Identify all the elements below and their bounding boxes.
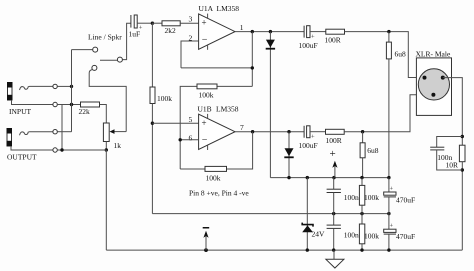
- junction 6u8 second top node: [361, 130, 364, 133]
- svg-text:INPUT: INPUT: [9, 107, 32, 116]
- wire common up to 1uF: [122, 23, 130, 59]
- junction input tip node: [70, 85, 73, 88]
- junction diode D1 top: [269, 30, 272, 33]
- junction U1A output node: [251, 30, 254, 33]
- wire node to 2k2: [152, 22, 162, 24]
- junction rail D2: [287, 176, 290, 179]
- junction rail zener: [306, 176, 309, 179]
- junction bus 470uF: [387, 248, 390, 251]
- wire vertical input bus: [71, 50, 73, 132]
- input ring terminal circle: [53, 102, 57, 106]
- wire input ring to 22k: [57, 104, 80, 106]
- XLR pin 1 contact: [431, 93, 435, 97]
- wire 22k to pot top: [100, 105, 107, 124]
- resistor R8 6u8: [360, 132, 365, 178]
- junction bias 100k: [360, 212, 363, 215]
- potentiometer 1k: [103, 123, 109, 142]
- input jack J1: [7, 82, 13, 100]
- XLR connector P1 body: [416, 58, 451, 116]
- diode D1: [266, 32, 275, 178]
- svg-text:Pin 8 +ve, Pin 4 -ve: Pin 8 +ve, Pin 4 -ve: [189, 189, 249, 198]
- capacitor C1 1uF: [131, 15, 137, 28]
- svg-text:+: +: [311, 34, 315, 41]
- junction minus marker: [204, 248, 208, 252]
- svg-text:22k: 22k: [79, 107, 91, 116]
- wire input tip to node: [57, 85, 71, 87]
- svg-text:+: +: [390, 223, 394, 230]
- svg-text:100uF: 100uF: [299, 141, 318, 150]
- capacitor C7 470uF: [384, 214, 396, 251]
- resistor R4 100k feedback: [205, 166, 227, 171]
- resistor R2 100k bias: [150, 23, 155, 213]
- wire U1B feedback loop: [180, 132, 252, 169]
- wire C2 to R5: [310, 31, 326, 33]
- wire input sleeve lead: [12, 100, 53, 105]
- wire U1A output: [235, 31, 304, 33]
- svg-text:1uF: 1uF: [129, 30, 141, 39]
- svg-text:Line / Spkr: Line / Spkr: [88, 33, 122, 42]
- junction U1B plus node: [151, 122, 154, 125]
- wire C3 to R6: [310, 131, 326, 133]
- svg-text:U1A: U1A: [199, 4, 214, 13]
- wire pot bottom: [105, 142, 107, 151]
- junction zobel bottom: [461, 168, 464, 171]
- svg-text:100k: 100k: [199, 91, 214, 100]
- svg-text:LM358: LM358: [217, 4, 240, 13]
- wire output ring to ground drop: [57, 149, 106, 151]
- junction rail 100k: [360, 176, 363, 179]
- svg-text:+: +: [390, 185, 394, 192]
- svg-text:3: 3: [189, 15, 193, 24]
- output jack J2: [7, 128, 13, 146]
- junction feedback node: [251, 66, 254, 69]
- svg-text:7: 7: [240, 123, 244, 132]
- svg-text:+: +: [311, 134, 315, 141]
- junction pin6 node: [179, 138, 182, 141]
- wire +V rail: [270, 177, 389, 179]
- XLR pin 3 contact: [441, 76, 445, 80]
- capacitor C3 100uF: [304, 126, 310, 138]
- resistor R1 2k2: [162, 21, 180, 26]
- svg-text:XLR- Male: XLR- Male: [416, 50, 451, 59]
- zener diode ZD1 24V: [302, 178, 313, 251]
- output tip terminal circle: [53, 130, 57, 134]
- svg-text:100R: 100R: [326, 136, 342, 145]
- junction link node: [60, 148, 63, 151]
- label minus supply marker: [203, 227, 210, 229]
- resistor R3 100k: [197, 84, 217, 89]
- svg-text:OUTPUT: OUTPUT: [7, 153, 37, 162]
- svg-text:1k: 1k: [114, 141, 122, 150]
- junction bus 100k: [360, 248, 363, 251]
- capacitor C8 100n zobel: [430, 137, 462, 171]
- svg-text:24V: 24V: [312, 230, 326, 239]
- wire XLR pin3 to shield leg: [443, 78, 463, 146]
- resistor R6 100R: [326, 129, 345, 134]
- op-amp U1B: [199, 114, 235, 150]
- junction diode D2 top: [287, 130, 290, 133]
- switch blade: [100, 59, 117, 61]
- svg-text:1: 1: [240, 23, 244, 32]
- input tip terminal circle: [53, 84, 57, 88]
- svg-text:100R: 100R: [325, 36, 341, 45]
- svg-text:100k: 100k: [157, 94, 172, 103]
- input jack tip contact arm: [20, 86, 53, 90]
- wire output sleeve lead: [11, 146, 53, 150]
- svg-text:100k: 100k: [364, 231, 379, 240]
- junction U1B output node: [251, 130, 254, 133]
- svg-text:+: +: [202, 18, 207, 28]
- svg-text:100n: 100n: [344, 193, 359, 202]
- svg-text:6u8: 6u8: [395, 50, 407, 59]
- wire bias rail: [152, 213, 389, 215]
- wire R6 to XLR pin3: [344, 95, 433, 132]
- resistor R9 100k: [359, 178, 364, 214]
- svg-text:470uF: 470uF: [396, 196, 415, 205]
- svg-text:+: +: [202, 118, 207, 128]
- wire ground bus: [106, 249, 462, 251]
- wire output tip to input bus: [57, 131, 71, 133]
- arrow plus supply: [332, 161, 337, 178]
- svg-text:100uF: 100uF: [299, 41, 318, 50]
- wire U1A pin2: [181, 41, 199, 68]
- XLR pin 2 contact: [423, 76, 427, 80]
- junction 6u8 top node: [387, 30, 390, 33]
- ground: [326, 250, 344, 268]
- junction ring node: [70, 103, 73, 106]
- switch SW1 throw B terminal: [92, 65, 97, 70]
- switch SW1 throw A terminal: [93, 47, 98, 52]
- wire U1B pin6: [180, 139, 198, 141]
- pot wiper arrow: [111, 131, 126, 133]
- diode D2: [284, 132, 293, 178]
- junction bias 470uF: [387, 212, 390, 215]
- svg-text:100k: 100k: [364, 193, 379, 202]
- resistor R5 100R: [326, 29, 345, 34]
- output ring terminal circle: [53, 148, 57, 152]
- svg-text:LM358: LM358: [216, 105, 239, 114]
- wire 100k row left: [180, 86, 252, 169]
- svg-text:−: −: [202, 135, 208, 146]
- svg-text:6u8: 6u8: [367, 146, 379, 155]
- capacitor C5 100n: [327, 214, 341, 251]
- capacitor C4 100n: [327, 178, 341, 214]
- junction input bias node: [151, 22, 154, 25]
- junction bus zener: [306, 248, 309, 251]
- wire R5 to XLR pin2: [345, 32, 425, 78]
- resistor R11 10R: [459, 145, 465, 162]
- wire throw B to pot wiper: [89, 70, 126, 132]
- svg-text:−: −: [202, 35, 208, 46]
- arrow minus supply: [203, 231, 208, 250]
- wire ground drop left: [105, 150, 107, 250]
- wire U1A feedback row: [181, 67, 252, 69]
- svg-text:100n: 100n: [344, 230, 359, 239]
- resistor 22k: [81, 102, 100, 107]
- output jack tip contact arm: [20, 132, 53, 136]
- op-amp U1A: [199, 14, 235, 50]
- resistor R10 100k: [359, 214, 364, 251]
- svg-text:5: 5: [189, 115, 193, 124]
- svg-text:470uF: 470uF: [396, 232, 415, 241]
- junction rail 100n: [332, 176, 335, 179]
- junction rail 470uF: [387, 176, 390, 179]
- capacitor C6 470uF: [384, 178, 396, 214]
- resistor R7 6u8: [386, 32, 391, 178]
- wire ring to output-sleeve link: [61, 105, 63, 151]
- wire U1B pin5: [152, 122, 198, 124]
- svg-text:100n: 100n: [437, 153, 452, 162]
- wire C1 to node: [137, 22, 152, 24]
- svg-text:+: +: [330, 148, 336, 160]
- svg-text:100k: 100k: [206, 174, 221, 183]
- junction zobel top: [461, 135, 464, 138]
- wire U1B output: [235, 131, 304, 133]
- junction bus 100n: [332, 248, 335, 251]
- wire U1A output down: [251, 32, 253, 87]
- svg-text:2k2: 2k2: [165, 26, 177, 35]
- XLR connector face: [418, 69, 449, 100]
- svg-text:U1B: U1B: [198, 105, 212, 114]
- capacitor C2 100uF: [304, 26, 310, 38]
- junction bias 100n: [332, 212, 335, 215]
- wire 10R to bus corner: [461, 162, 463, 250]
- junction pot bottom: [105, 148, 108, 151]
- wire throw A: [72, 49, 93, 51]
- wire 2k2 to pin3: [180, 22, 198, 24]
- switch SW1 common terminal: [117, 57, 122, 62]
- svg-text:6: 6: [189, 134, 193, 143]
